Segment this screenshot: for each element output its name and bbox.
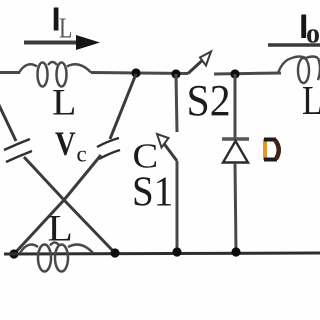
inductor L3 (bottom)	[20, 243, 93, 272]
node J2	[171, 69, 180, 78]
wire S1 branch lower	[176, 161, 179, 252]
label C	[133, 136, 159, 175]
current label I_o	[299, 8, 320, 50]
switch S1 blade	[157, 134, 177, 161]
node bottom diode	[231, 247, 240, 256]
diode branch wire upper	[234, 74, 237, 138]
label D (orange)	[263, 138, 279, 162]
inductor L1 (top left)	[19, 62, 91, 87]
bottom wire	[4, 253, 320, 254]
node J1	[131, 68, 140, 77]
wire top-left	[0, 71, 20, 74]
capacitor C2 plates (right flying capacitor)	[97, 138, 120, 159]
label S2	[187, 77, 231, 125]
wire S1 branch upper	[176, 74, 177, 132]
current label I_L	[52, 1, 73, 45]
wire line A lower (to bottom-right node)	[24, 157, 115, 253]
node J3	[230, 69, 239, 78]
capacitor branch wire (line A upper, from left edge)	[0, 103, 16, 141]
svg-text:L: L	[52, 83, 76, 123]
node bottom S1	[172, 247, 181, 256]
arrow line I_o	[268, 43, 320, 47]
label V_c	[55, 124, 87, 166]
wire S2 fixed side	[214, 73, 281, 74]
wire line B lower (to bottom-left node)	[14, 155, 101, 254]
switch S2 blade	[188, 52, 211, 74]
label L (bottom inductor)	[48, 208, 73, 249]
label L (top left inductor)	[52, 83, 76, 123]
label S1	[132, 168, 173, 215]
node bottom-left	[9, 249, 18, 258]
diode branch wire lower	[235, 163, 236, 252]
svg-text:L: L	[302, 78, 320, 123]
diode D	[222, 139, 249, 163]
svg-text:c: c	[77, 142, 87, 167]
label L (top right inductor)	[302, 78, 320, 123]
svg-text:V: V	[55, 124, 76, 162]
capacitor branch wire (line B upper, from J1)	[110, 74, 136, 139]
svg-text:L: L	[48, 208, 73, 249]
wire top middle	[91, 73, 188, 74]
node bottom-mid-left	[110, 248, 119, 257]
inductor L2 (top right, cropped)	[278, 57, 320, 84]
svg-text:S2: S2	[187, 77, 231, 125]
capacitor C1 plates (left flying capacitor)	[4, 139, 32, 162]
arrow I_L	[24, 35, 100, 50]
svg-text:S1: S1	[132, 168, 173, 215]
svg-text:L: L	[59, 14, 72, 44]
